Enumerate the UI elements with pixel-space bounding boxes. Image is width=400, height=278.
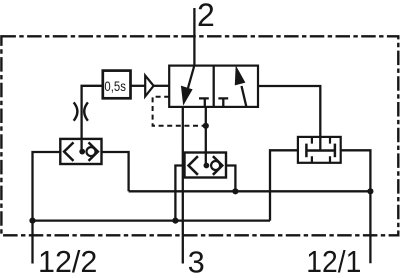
svg-text:12/1: 12/1: [306, 245, 361, 278]
port 2 line: [193, 8, 195, 66]
svg-text:2: 2: [197, 0, 215, 33]
shuttle valve SV2 body: [185, 153, 227, 178]
SV2 left seat: [189, 156, 198, 175]
valve left chamber flow path (2 to 3): [188, 66, 194, 88]
junction dot SV2-left on bus C: [172, 218, 178, 224]
SV1 left seat: [64, 142, 73, 161]
wire: valve right port to two-pressure valve: [258, 86, 320, 150]
SV2 ball: [211, 161, 220, 170]
wire: U1 right port down to bus B: [341, 150, 371, 191]
wire: SV1 right port to bus B: [102, 152, 129, 191]
junction dot SV2-right on bus B: [232, 188, 238, 194]
wire: valve supply down to shuttle SV2: [205, 107, 207, 165]
bus C horizontal wire: [33, 219, 271, 221]
shuttle valve SV1 body: [60, 139, 101, 164]
valve right chamber flow path arrow: [242, 86, 247, 107]
valve left chamber blocked port T: [199, 98, 209, 107]
U1 left piston: [305, 144, 308, 158]
SV2 right seat: [213, 156, 222, 175]
wire: timer to amplifier: [131, 85, 146, 87]
U1 piston rod: [306, 149, 335, 152]
junction dot 12/1 on bus B: [367, 188, 373, 194]
wire: SV2 right port down to bus B: [226, 166, 235, 192]
wire: bus C up to U1 left port: [270, 150, 298, 220]
assembly boundary (dash-dot border): [1, 36, 398, 235]
SV1 right seat: [89, 142, 98, 161]
pilot dashed line from amplifier to node A: [153, 97, 206, 126]
wire: valve outlet to port 3 (vertical): [182, 107, 184, 264]
svg-text:0,5s: 0,5s: [104, 79, 126, 94]
svg-text:3: 3: [188, 245, 205, 278]
valve right chamber blocked port T: [218, 98, 228, 107]
valve chamber divider: [213, 66, 215, 107]
U1 right piston: [334, 144, 337, 158]
node A junction dot: [203, 123, 209, 129]
wire: port 12/2 riser to SV1 left port: [33, 152, 61, 221]
port 12/1 line: [369, 191, 371, 263]
svg-text:12/2: 12/2: [38, 245, 97, 278]
throttle (restrictor arcs): [74, 102, 88, 120]
junction dot 12/2 bus: [29, 218, 35, 224]
amplifier triangle: [145, 76, 153, 97]
SV2 ball dot: [204, 163, 210, 169]
wire: amplifier to valve pilot port: [154, 85, 170, 87]
bus B horizontal wire: [129, 190, 371, 192]
timer 0,5s box: [103, 71, 131, 99]
two-pressure valve U1 body: [298, 137, 341, 163]
wire: SV2 left port down to bus C: [175, 166, 184, 221]
SV1 ball: [87, 147, 96, 156]
SV1 ball dot: [79, 149, 85, 155]
wire: timer elbow to timer box: [82, 86, 103, 152]
port 12/2 line: [31, 221, 33, 264]
valve V1 3/2-way body: [169, 66, 258, 107]
U1 bottom seats: [312, 156, 330, 163]
U1 top seats: [312, 137, 330, 144]
